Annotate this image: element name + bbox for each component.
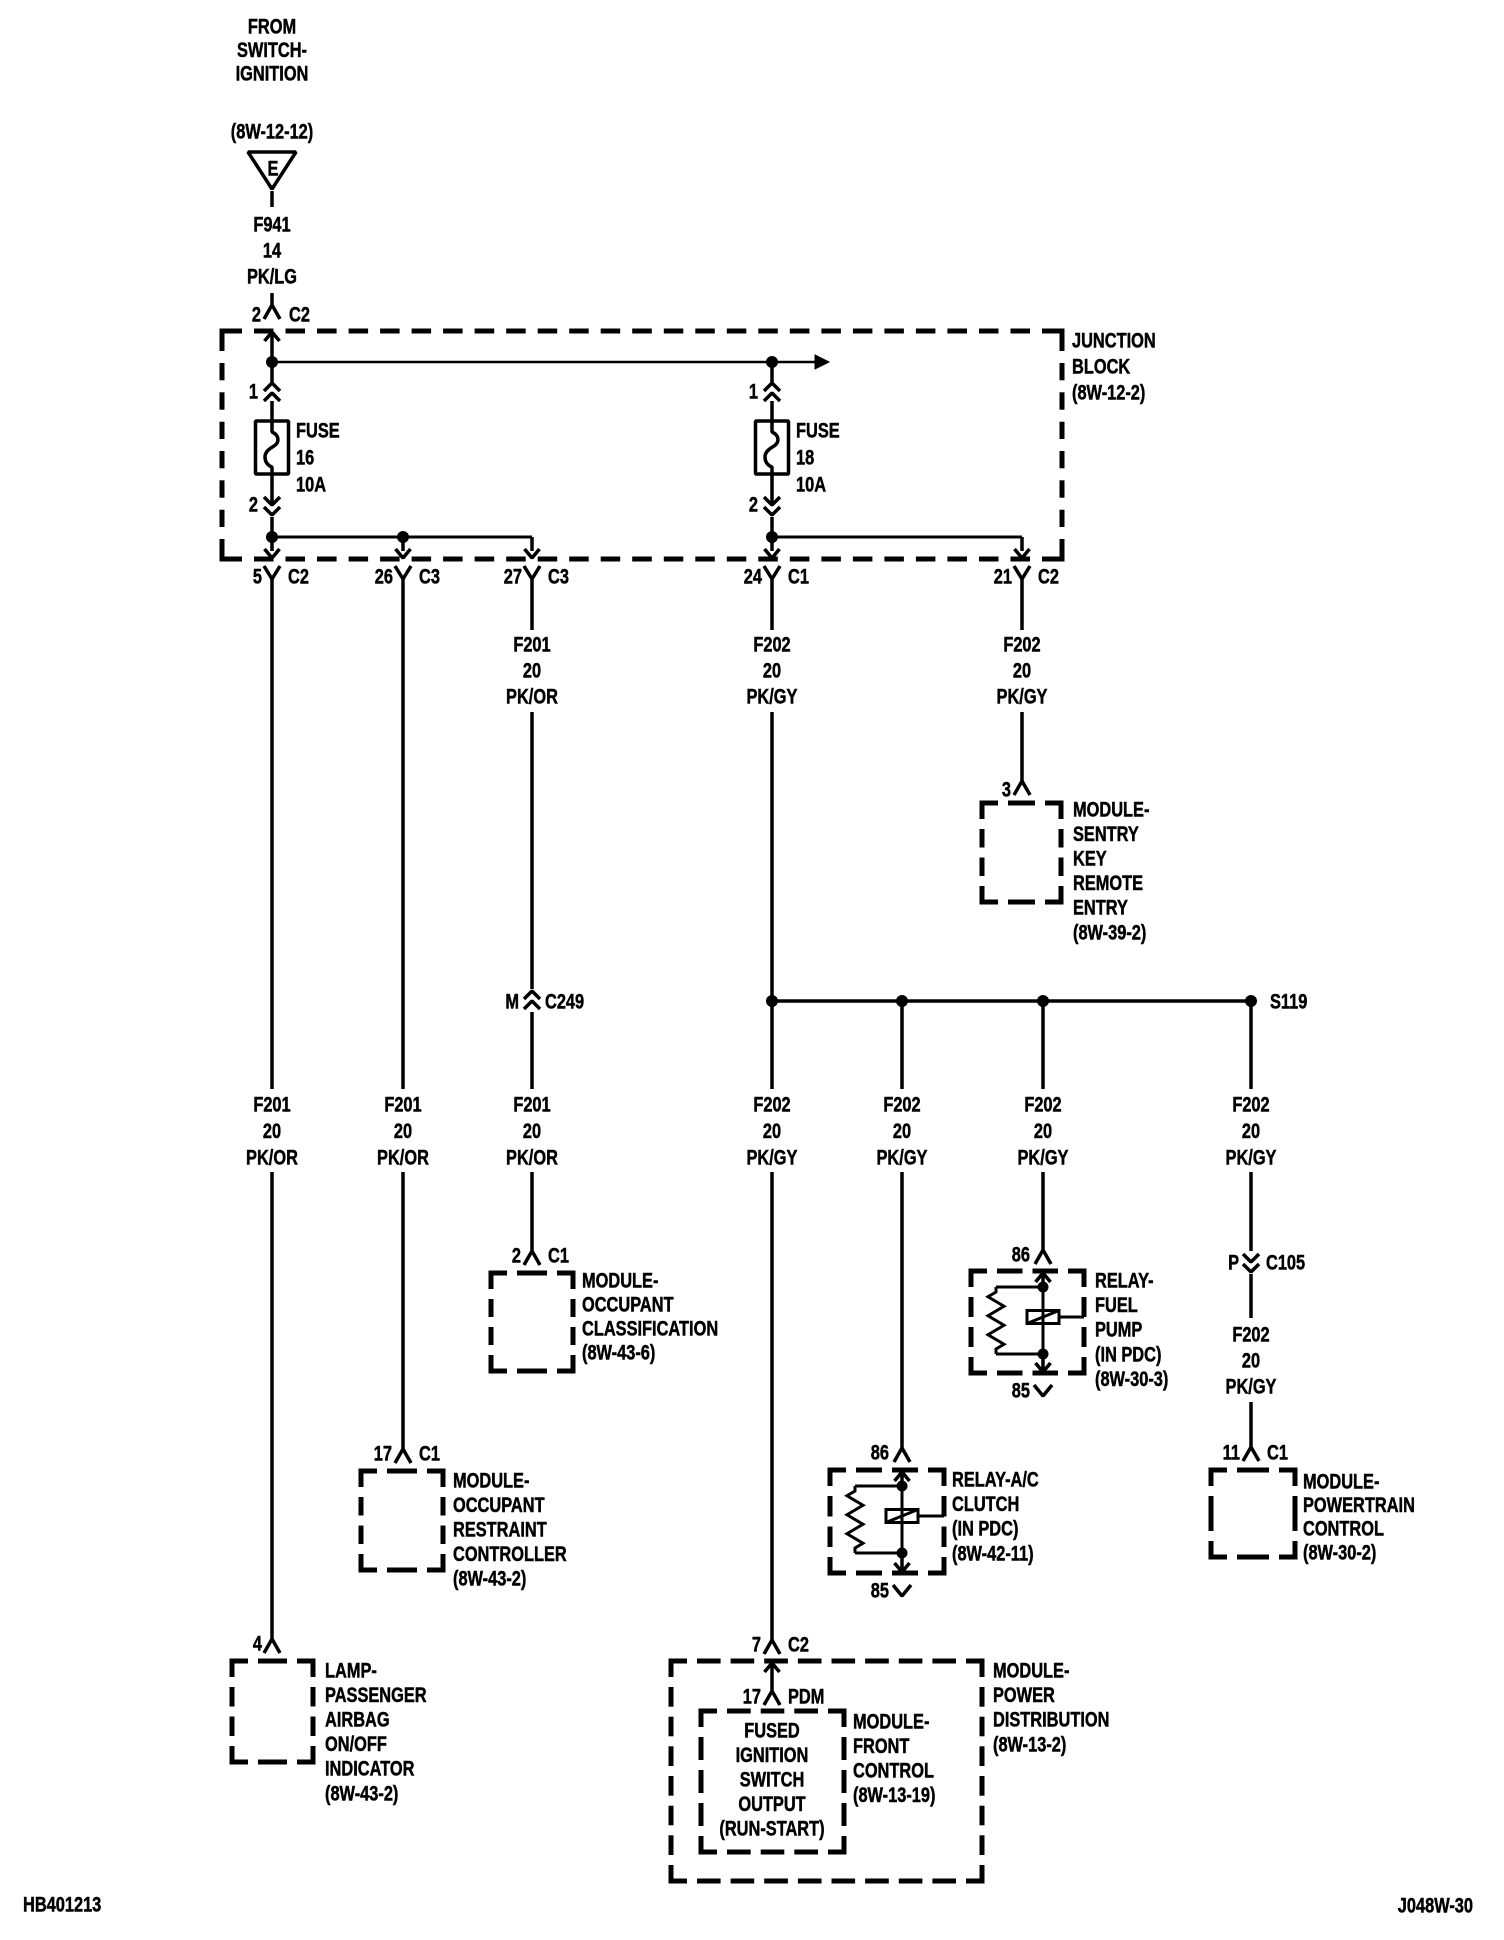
module occupant restraint controller box: [361, 1471, 377, 1487]
fuse 16 pin 1 connector: [270, 362, 274, 383]
svg-text:(8W-30-2): (8W-30-2): [1303, 1540, 1376, 1563]
wire arrow to coil dot ac: [900, 1472, 904, 1486]
svg-text:RELAY-: RELAY-: [1095, 1268, 1154, 1291]
relay fuel pump box: [971, 1271, 987, 1287]
svg-text:KEY: KEY: [1073, 847, 1107, 870]
wire ac relay to 85: [900, 1553, 904, 1572]
terminal 21 C2 connector: [1014, 566, 1030, 579]
svg-text:CLUTCH: CLUTCH: [952, 1492, 1019, 1515]
svg-text:C1: C1: [788, 564, 809, 587]
wire arrow to pin 17 pdm: [770, 1663, 774, 1691]
svg-text:86: 86: [1012, 1242, 1030, 1265]
fuel relay resistor: [988, 1287, 1004, 1354]
svg-text:(RUN-START): (RUN-START): [719, 1816, 824, 1839]
svg-text:F202: F202: [1232, 1322, 1269, 1345]
svg-text:10A: 10A: [296, 472, 326, 495]
fuse F16: [256, 421, 289, 474]
svg-text:F201: F201: [384, 1092, 421, 1115]
svg-text:PASSENGER: PASSENGER: [325, 1683, 427, 1706]
connector pin 85 fuel relay: [1034, 1385, 1052, 1396]
connector pin 86 ac relay: [894, 1448, 910, 1462]
svg-text:F201: F201: [513, 1092, 550, 1115]
svg-text:CONTROL: CONTROL: [853, 1759, 934, 1782]
fuse 18 pin 1 connector: [770, 362, 774, 383]
svg-text:(8W-42-11): (8W-42-11): [952, 1541, 1034, 1564]
svg-text:PK/OR: PK/OR: [506, 684, 558, 707]
arrowhead continuation right: [815, 355, 829, 369]
svg-text:MODULE-: MODULE-: [453, 1468, 529, 1491]
svg-text:RESTRAINT: RESTRAINT: [453, 1518, 547, 1541]
wire branch S119 to relay fuel pump: [1041, 1001, 1045, 1089]
svg-text:CLASSIFICATION: CLASSIFICATION: [582, 1316, 718, 1339]
splice dot below fuse 16: [266, 531, 278, 543]
wire fuel relay branch to 86: [1041, 1172, 1045, 1250]
wire pin 2 to splice: [270, 517, 274, 537]
svg-text:7: 7: [752, 1632, 761, 1655]
connector pin 2 C1 ocm: [524, 1251, 540, 1265]
splice S119 bus: [772, 999, 1251, 1003]
arrow out terminal 5: [265, 549, 280, 558]
fuel relay bottom dot: [1038, 1349, 1049, 1360]
wire pin1 to fuse 18: [770, 401, 774, 421]
connector pin 85 ac relay: [893, 1585, 911, 1596]
svg-text:SWITCH-: SWITCH-: [237, 38, 307, 61]
svg-text:FUSE: FUSE: [796, 418, 840, 441]
wire branch 27 down: [530, 537, 534, 551]
connector pin 17 C1 orc: [395, 1449, 411, 1463]
wire 21 C2 down to label: [1020, 586, 1024, 630]
svg-text:F202: F202: [753, 1092, 790, 1115]
svg-text:(8W-12-12): (8W-12-12): [231, 119, 313, 142]
svg-text:AIRBAG: AIRBAG: [325, 1708, 390, 1731]
module sentry key remote entry box: [982, 803, 998, 819]
ac relay resistor: [847, 1486, 863, 1553]
wire branch S119 to C105: [1249, 1001, 1253, 1089]
splice dot S119 c: [1037, 995, 1049, 1007]
svg-text:POWER: POWER: [993, 1683, 1055, 1706]
svg-text:C1: C1: [548, 1243, 569, 1266]
module powertrain control box: [1211, 1470, 1227, 1486]
svg-text:FROM: FROM: [248, 14, 296, 37]
fuel relay coil vertical wire: [1042, 1287, 1045, 1354]
svg-text:PK/GY: PK/GY: [997, 684, 1048, 707]
wire C249 down: [530, 1012, 534, 1089]
wire main branch 5 down: [270, 537, 274, 551]
svg-text:(8W-12-2): (8W-12-2): [1072, 380, 1145, 403]
splice dot S119 d: [1245, 995, 1257, 1007]
connector C2 pin 2 (junction block input): [264, 305, 280, 319]
svg-text:3: 3: [1002, 777, 1011, 800]
svg-text:C1: C1: [419, 1441, 440, 1464]
svg-text:PK/OR: PK/OR: [506, 1145, 558, 1168]
svg-text:11: 11: [1223, 1440, 1240, 1463]
off-page connector triangle E: [248, 152, 296, 189]
arrow into fuel relay: [1036, 1273, 1051, 1282]
svg-text:F201: F201: [513, 632, 550, 655]
svg-text:SWITCH: SWITCH: [740, 1767, 805, 1790]
svg-text:C249: C249: [545, 989, 584, 1012]
svg-text:(8W-43-6): (8W-43-6): [582, 1340, 655, 1363]
svg-text:PK/GY: PK/GY: [877, 1145, 928, 1168]
svg-text:5: 5: [253, 564, 262, 587]
svg-text:C2: C2: [288, 564, 309, 587]
svg-text:F202: F202: [883, 1092, 920, 1115]
svg-text:85: 85: [1012, 1378, 1030, 1401]
svg-text:20: 20: [263, 1119, 281, 1142]
wire splice to terminal 21: [772, 536, 1022, 539]
module power distribution box: [671, 1661, 687, 1677]
svg-text:OUTPUT: OUTPUT: [738, 1792, 806, 1815]
svg-text:F202: F202: [1232, 1092, 1269, 1115]
svg-text:21: 21: [994, 564, 1012, 587]
svg-text:1: 1: [249, 379, 258, 402]
connector pin 7 C2 pdm: [764, 1640, 780, 1654]
svg-text:OCCUPANT: OCCUPANT: [453, 1493, 545, 1516]
arrow into junction block at C2 pin 2: [265, 332, 280, 341]
svg-text:86: 86: [871, 1440, 889, 1463]
svg-text:PK/GY: PK/GY: [747, 1145, 798, 1168]
relay ac clutch box: [830, 1470, 846, 1486]
svg-text:F202: F202: [1003, 632, 1040, 655]
svg-text:PK/OR: PK/OR: [377, 1145, 429, 1168]
svg-text:C3: C3: [419, 564, 440, 587]
wire stub below triangle E: [270, 191, 274, 207]
svg-text:F941: F941: [253, 212, 290, 235]
svg-text:MODULE-: MODULE-: [993, 1658, 1069, 1681]
svg-text:20: 20: [763, 1119, 781, 1142]
wire branch S119 to relay ac clutch: [900, 1001, 904, 1089]
svg-text:MODULE-: MODULE-: [582, 1268, 658, 1291]
svg-text:20: 20: [1013, 658, 1031, 681]
svg-text:20: 20: [523, 658, 541, 681]
svg-text:C2: C2: [289, 302, 310, 325]
wire C105 to label: [1249, 1274, 1253, 1318]
fused ignition switch output box: [701, 1711, 717, 1727]
svg-text:BLOCK: BLOCK: [1072, 354, 1131, 377]
svg-text:(8W-39-2): (8W-39-2): [1073, 920, 1146, 943]
splice junction dot left: [266, 356, 278, 368]
svg-text:20: 20: [1034, 1119, 1052, 1142]
svg-text:POWERTRAIN: POWERTRAIN: [1303, 1493, 1415, 1516]
svg-text:C2: C2: [1038, 564, 1059, 587]
svg-text:PK/LG: PK/LG: [247, 264, 297, 287]
svg-text:IGNITION: IGNITION: [736, 1743, 809, 1766]
svg-text:20: 20: [1242, 1348, 1260, 1371]
connector C105 pin P: [1243, 1254, 1259, 1262]
svg-text:1: 1: [749, 379, 758, 402]
svg-text:17: 17: [743, 1684, 761, 1707]
wire branch 26 down: [401, 537, 405, 551]
fuel relay bottom link: [996, 1353, 1043, 1356]
connector C249 pin M: [524, 991, 540, 999]
fuel relay coil: [1027, 1311, 1059, 1324]
connector pin 17 PDM: [764, 1691, 780, 1705]
connector pin 11 C1 pcm: [1243, 1447, 1259, 1461]
svg-text:18: 18: [796, 445, 814, 468]
wire ac relay branch to 86: [900, 1172, 904, 1448]
svg-text:FUSED: FUSED: [744, 1718, 800, 1741]
svg-text:REMOTE: REMOTE: [1073, 871, 1143, 894]
ac relay coil vertical wire: [901, 1486, 904, 1553]
svg-text:JUNCTION: JUNCTION: [1072, 328, 1156, 351]
wire to connector C2 pin 2: [270, 293, 274, 305]
terminal 27 C3 connector: [524, 566, 540, 579]
svg-text:2: 2: [512, 1243, 521, 1266]
wire splice to terminals 26/27: [272, 536, 532, 539]
svg-text:20: 20: [763, 658, 781, 681]
svg-text:P: P: [1228, 1250, 1239, 1273]
module occupant classification box: [491, 1273, 507, 1289]
splice dot below fuse 18: [766, 531, 778, 543]
svg-text:PDM: PDM: [788, 1684, 824, 1707]
svg-text:MODULE-: MODULE-: [1303, 1469, 1379, 1492]
svg-text:OCCUPANT: OCCUPANT: [582, 1292, 674, 1315]
svg-text:20: 20: [523, 1119, 541, 1142]
svg-text:26: 26: [375, 564, 393, 587]
fuel relay top dot: [1038, 1282, 1049, 1293]
svg-text:F202: F202: [1024, 1092, 1061, 1115]
svg-text:(8W-43-2): (8W-43-2): [453, 1567, 526, 1590]
svg-text:ON/OFF: ON/OFF: [325, 1732, 387, 1755]
wire fuse 16 to pin 2: [270, 474, 274, 505]
svg-text:ENTRY: ENTRY: [1073, 896, 1128, 919]
svg-text:(IN PDC): (IN PDC): [1095, 1342, 1161, 1365]
svg-text:2: 2: [252, 302, 261, 325]
terminal 24 C1 connector: [764, 566, 780, 579]
svg-text:PK/GY: PK/GY: [747, 684, 798, 707]
terminal 26 C3 connector: [395, 566, 411, 579]
arrow out terminal 21: [1015, 549, 1030, 558]
svg-text:C105: C105: [1266, 1250, 1305, 1273]
svg-text:(IN PDC): (IN PDC): [952, 1517, 1018, 1540]
svg-text:CONTROL: CONTROL: [1303, 1517, 1384, 1540]
fuse 16 pin 2 connector: [264, 497, 280, 505]
svg-text:F202: F202: [753, 632, 790, 655]
svg-text:PUMP: PUMP: [1095, 1318, 1142, 1341]
connector pin 86 fuel relay: [1035, 1250, 1051, 1264]
svg-text:PK/GY: PK/GY: [1226, 1374, 1277, 1397]
wire main branch 24 down: [770, 537, 774, 551]
svg-text:85: 85: [871, 1578, 889, 1601]
svg-text:FUSE: FUSE: [296, 418, 340, 441]
wire 21 C2 to sentry module: [1020, 712, 1024, 781]
wire pin 2 to splice: [770, 517, 774, 537]
arrow into ac relay: [895, 1472, 910, 1481]
svg-text:C2: C2: [788, 1632, 809, 1655]
wire arrow to coil dot fuel: [1041, 1273, 1045, 1287]
svg-text:M: M: [505, 989, 519, 1012]
svg-text:20: 20: [893, 1119, 911, 1142]
connector pin 4 lamp: [264, 1639, 280, 1653]
arrow out terminal 24: [765, 549, 780, 558]
wire col26 label to orc: [401, 1172, 405, 1449]
svg-text:SENTRY: SENTRY: [1073, 822, 1139, 845]
svg-text:FUEL: FUEL: [1095, 1293, 1138, 1316]
svg-text:CONTROLLER: CONTROLLER: [453, 1542, 567, 1565]
fuel relay top link: [996, 1286, 1043, 1289]
ac relay bottom link: [855, 1552, 902, 1555]
wire 26 C3 long down: [401, 586, 405, 1089]
arrow into pdm: [765, 1663, 780, 1672]
svg-text:(8W-13-2): (8W-13-2): [993, 1732, 1066, 1755]
svg-text:MODULE-: MODULE-: [853, 1709, 929, 1732]
wire col27 label to ocm: [530, 1172, 534, 1251]
svg-text:(8W-13-19): (8W-13-19): [853, 1783, 935, 1806]
svg-text:(8W-30-3): (8W-30-3): [1095, 1367, 1168, 1390]
arrow out ac relay 85: [895, 1563, 910, 1572]
svg-text:J048W-30: J048W-30: [1398, 1893, 1473, 1916]
ac relay top link: [855, 1485, 902, 1488]
fuse F18: [756, 421, 789, 474]
svg-text:PK/GY: PK/GY: [1226, 1145, 1277, 1168]
svg-text:17: 17: [374, 1441, 392, 1464]
ac relay top dot: [897, 1481, 908, 1492]
arrow out terminal 26: [396, 549, 411, 558]
svg-text:RELAY-A/C: RELAY-A/C: [952, 1467, 1039, 1490]
wire 27 C3 down to label: [530, 586, 534, 630]
svg-text:2: 2: [749, 492, 758, 515]
ac relay bottom dot: [897, 1548, 908, 1559]
svg-text:10A: 10A: [796, 472, 826, 495]
svg-text:20: 20: [394, 1119, 412, 1142]
wire fuel relay to 85: [1041, 1354, 1045, 1372]
wire arrow to splice dot: [270, 332, 274, 362]
svg-text:INDICATOR: INDICATOR: [325, 1757, 415, 1780]
wire 24 C1 label to splice S119: [770, 712, 774, 1089]
wire pcm branch to C105: [1249, 1172, 1253, 1251]
svg-text:E: E: [268, 156, 279, 179]
splice dot S119 b: [896, 995, 908, 1007]
svg-text:MODULE-: MODULE-: [1073, 797, 1149, 820]
wire label to pin 11: [1249, 1402, 1253, 1447]
wire fuse 18 to pin 2: [770, 474, 774, 505]
wire col24 label to pdm: [770, 1172, 774, 1640]
svg-text:2: 2: [249, 492, 258, 515]
svg-text:PK/GY: PK/GY: [1018, 1145, 1069, 1168]
wire 24 C1 down to label: [770, 586, 774, 630]
lamp passenger airbag indicator box: [232, 1661, 248, 1677]
svg-text:DISTRIBUTION: DISTRIBUTION: [993, 1708, 1109, 1731]
svg-text:S119: S119: [1270, 989, 1307, 1012]
svg-text:C3: C3: [548, 564, 569, 587]
svg-text:(8W-43-2): (8W-43-2): [325, 1781, 398, 1804]
svg-text:27: 27: [504, 564, 522, 587]
wire branch 21 down: [1020, 537, 1024, 551]
svg-text:24: 24: [744, 564, 763, 587]
splice junction dot right: [766, 356, 778, 368]
svg-text:20: 20: [1242, 1119, 1260, 1142]
terminal 5 C2 connector: [264, 566, 280, 579]
wire 27 C3 label to C249: [530, 712, 534, 989]
svg-text:HB401213: HB401213: [23, 1892, 101, 1915]
connector pin 3 sentry key module: [1014, 781, 1030, 795]
svg-text:14: 14: [263, 238, 282, 261]
splice dot S119 a: [766, 995, 778, 1007]
bus wire across junction block: [272, 361, 817, 364]
junction block dashed outline: [222, 331, 242, 351]
svg-text:IGNITION: IGNITION: [236, 61, 309, 84]
svg-text:LAMP-: LAMP-: [325, 1658, 377, 1681]
ac relay coil: [886, 1510, 918, 1523]
svg-text:FRONT: FRONT: [853, 1734, 910, 1757]
arrow out fuel relay 85: [1036, 1363, 1051, 1372]
svg-text:F201: F201: [253, 1092, 290, 1115]
splice dot branch 26: [397, 531, 409, 543]
wire 5 C2 long down: [270, 586, 274, 1089]
svg-text:PK/OR: PK/OR: [246, 1145, 298, 1168]
wire pin1 to fuse 16: [270, 401, 274, 421]
arrow out terminal 27: [525, 549, 540, 558]
svg-text:C1: C1: [1267, 1440, 1288, 1463]
svg-text:16: 16: [296, 445, 314, 468]
fuse 18 pin 2 connector: [764, 497, 780, 505]
wire col5 label to lamp: [270, 1172, 274, 1639]
svg-text:4: 4: [253, 1631, 263, 1654]
